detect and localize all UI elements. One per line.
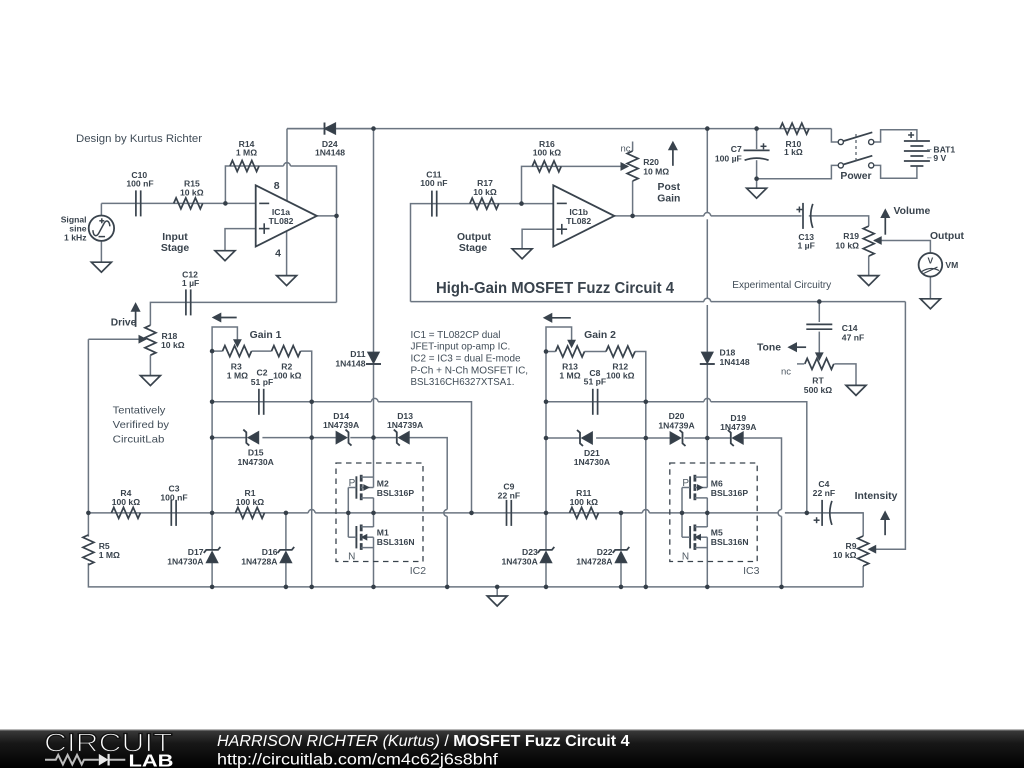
wire column x645 to bottom [645, 402, 647, 587]
svg-text:1N4728A: 1N4728A [576, 556, 612, 566]
svg-text:1N4730A: 1N4730A [574, 457, 610, 467]
junction at 546,351.5 [544, 349, 549, 354]
wire IC1b noninv ground [522, 229, 553, 249]
junction at 645.8,438 [644, 436, 649, 441]
junction at 348.3,512.9 [346, 511, 351, 516]
ground C7 [747, 188, 767, 198]
svg-text:1N4148: 1N4148 [315, 147, 345, 157]
wire IC2 source to bottom [373, 547, 375, 587]
capacitor C12 [185, 289, 187, 315]
wire D13 to corner down [409, 438, 447, 510]
wire R5 bottom to rail corner [88, 563, 863, 587]
wire row C past x781 [785, 512, 863, 514]
wire left column to R5 [87, 339, 89, 536]
junction at 682,512.9 [680, 511, 685, 516]
logo resistor-diode glyph [45, 755, 125, 765]
svg-text:100 kΩ: 100 kΩ [112, 497, 141, 507]
svg-text:BSL316N: BSL316N [377, 537, 415, 547]
resistor R14 [230, 161, 259, 172]
potentiometer R3 [223, 346, 252, 357]
zener D22 [615, 552, 626, 563]
svg-text:TL082: TL082 [269, 216, 294, 226]
voltage source V1 signal [89, 216, 114, 241]
wire gain1 resistor row [212, 350, 222, 352]
wire power rail corner to switch [831, 129, 838, 142]
wire IC3 source to bottom [706, 547, 708, 587]
svg-text:P: P [349, 478, 356, 489]
wire column x311 zener to bottom [311, 402, 313, 587]
junction at 373.5,128.6 [371, 126, 376, 131]
wire zener row 1 [212, 437, 246, 439]
svg-text:1N4728A: 1N4728A [241, 556, 277, 566]
wire row C mid segment [315, 512, 642, 514]
svg-text:BSL316P: BSL316P [377, 488, 415, 498]
wire source top lead [100, 203, 102, 215]
svg-text:100 kΩ: 100 kΩ [606, 370, 635, 380]
wire C4 to R9 [830, 513, 864, 536]
wire B2 to drop corner [711, 402, 807, 513]
IC2 dashed box [336, 463, 423, 562]
ground RT [846, 385, 866, 395]
wire zener row 2 [546, 437, 580, 439]
svg-text:BSL316CH6327XTSA1.: BSL316CH6327XTSA1. [411, 377, 515, 388]
zener D23 [540, 552, 551, 563]
wire R20 bottom [632, 181, 634, 216]
zener D19 [733, 432, 744, 444]
svg-text:M1: M1 [377, 528, 389, 538]
wire D16 column [285, 513, 287, 550]
junction at 311.7,586.9 [309, 585, 314, 590]
wire hop row C over x311 [308, 510, 315, 513]
junction at 336.5,215.9 [334, 214, 339, 219]
resistor R12 [606, 346, 635, 357]
svg-text:P: P [682, 478, 689, 489]
wire IC1b output row [614, 215, 704, 217]
voltmeter VM [919, 253, 943, 277]
wire hop R14 over pin8 [284, 163, 291, 166]
capacitor C2 [258, 389, 260, 415]
diode D18 [702, 352, 713, 363]
junction at 621,512.9 [619, 511, 624, 516]
wire D23 to bottom rail [545, 563, 547, 587]
svg-text:IC2 = IC3 = dual E-mode: IC2 = IC3 = dual E-mode [411, 354, 521, 365]
svg-text:100 nF: 100 nF [126, 179, 153, 189]
svg-text:10 kΩ: 10 kΩ [161, 340, 185, 350]
svg-text:9 V: 9 V [933, 153, 946, 163]
svg-text:Tentatively: Tentatively [113, 406, 167, 417]
svg-text:10 kΩ: 10 kΩ [180, 188, 204, 198]
ground R18 [140, 376, 160, 386]
svg-text:1N4739A: 1N4739A [387, 420, 423, 430]
wire R18 bottom lead [149, 355, 151, 375]
wire hop B2 over D18 column [704, 398, 711, 401]
resistor R1 [236, 507, 265, 518]
junction at 621,586.9 [619, 585, 624, 590]
wire long row right [711, 301, 906, 303]
svg-text:TL082: TL082 [566, 216, 591, 226]
wire R19 bottom lead [868, 256, 870, 276]
svg-text:Gain: Gain [657, 193, 680, 204]
junction at 225.4,203.4 [223, 201, 228, 206]
wire R18 wiper row [88, 338, 139, 340]
capacitor C7 polarized [744, 149, 770, 151]
wire gain1 lower row B1 [212, 401, 371, 403]
wire switch to battery top [874, 130, 917, 142]
junction at 756.6,178.7 [754, 176, 759, 181]
svg-text:1 kΩ: 1 kΩ [784, 147, 803, 157]
arrow Tone [797, 346, 807, 348]
svg-text:Output: Output [457, 232, 492, 243]
resistor R4 [111, 507, 140, 518]
wire R12 to corner down [635, 352, 646, 402]
wire IC1a pin4 to ground [286, 231, 288, 276]
wire IC2 gate column [347, 488, 349, 538]
op-amp IC1b [553, 185, 614, 246]
svg-text:M5: M5 [711, 528, 723, 538]
wire output row to C13 [711, 215, 802, 217]
wire long row y302 [411, 301, 704, 303]
svg-text:1 MΩ: 1 MΩ [236, 147, 257, 157]
svg-text:1N4739A: 1N4739A [323, 420, 359, 430]
junction at 632.6,215.9 [630, 214, 635, 219]
wire hop output over D18 column [704, 213, 711, 216]
svg-text:51 pF: 51 pF [251, 377, 273, 387]
junction at 212.1,351.1 [210, 349, 215, 354]
zener D21 [582, 432, 593, 444]
wire IC1a pin8 to rail [286, 129, 288, 201]
wire IC2 drain column [373, 438, 375, 478]
wire C13 to R19 [809, 216, 869, 226]
svg-text:V: V [928, 256, 934, 266]
junction at 285.9,512.9 [284, 511, 289, 516]
battery BAT1 [904, 140, 930, 142]
zener D16 [280, 552, 291, 563]
wire gain2 resistor row [546, 351, 556, 353]
ground IC1a noninv [215, 251, 235, 261]
junction at 707.3,586.9 [705, 585, 710, 590]
resistor R17 [470, 198, 499, 209]
svg-text:1 MΩ: 1 MΩ [99, 550, 120, 560]
wire output down to C12 row [336, 216, 338, 303]
wire IC3 drain column [706, 438, 708, 477]
svg-text:10 kΩ: 10 kΩ [833, 550, 857, 560]
potentiometer RT [805, 358, 834, 369]
mosfet M1 [355, 526, 357, 548]
arrow Gain 2 [552, 317, 571, 319]
resistor R10 [780, 123, 809, 134]
svg-text:10 MΩ: 10 MΩ [643, 167, 669, 177]
wire gain1 pot loop [212, 327, 237, 351]
junction at 521.5,203.6 [519, 201, 524, 206]
resistor R16 [532, 161, 561, 172]
svg-text:1 µF: 1 µF [182, 278, 199, 288]
wire C7 bottom lead [756, 160, 758, 188]
wire R19 wiper to VM [874, 241, 930, 254]
arrow Drive [135, 311, 137, 327]
zener D13 [399, 432, 410, 444]
wire D18 column bottom [706, 365, 708, 438]
wire source bottom lead [100, 241, 102, 262]
wire switch bottom to C7 [757, 165, 839, 178]
wire IC1a noninv to ground [225, 229, 256, 251]
ground pin4 [277, 276, 297, 286]
capacitor C14 [806, 323, 832, 325]
wire row C right segment [649, 512, 778, 514]
wire R2 to corner down [301, 351, 312, 402]
zener D17 [206, 552, 217, 563]
svg-text:IC1 = TL082CP dual: IC1 = TL082CP dual [411, 330, 501, 341]
arrow Gain 1 [221, 317, 237, 319]
zener D14 [336, 432, 347, 444]
capacitor C11 [431, 191, 433, 217]
wire D19 column to bottom rail [781, 516, 783, 587]
wire D13 column to bottom rail [446, 516, 448, 587]
wire gain2 lower row B2 [546, 401, 704, 403]
capacitor C13 polarized [802, 203, 804, 229]
svg-text:Gain 1: Gain 1 [250, 330, 282, 341]
junction at 546,512.9 [544, 511, 549, 516]
svg-text:Experimental Circuitry: Experimental Circuitry [732, 280, 832, 291]
junction at 707.3,438 [705, 436, 710, 441]
wire R14 row to output corner [290, 166, 336, 216]
svg-text:1N4148: 1N4148 [720, 357, 750, 367]
capacitor C8 [592, 389, 594, 415]
svg-text:1N4148: 1N4148 [335, 358, 365, 368]
wire hop D19 column over row C [778, 510, 781, 517]
svg-text:Post: Post [658, 182, 681, 193]
wire D19 to corner down [744, 438, 782, 510]
svg-text:51 pF: 51 pF [584, 377, 606, 387]
svg-text:Tone: Tone [757, 343, 781, 354]
potentiometer R18 [145, 325, 156, 355]
wire ground stub bottom rail [496, 587, 498, 596]
wire R16 row [522, 166, 622, 203]
svg-text:JFET-input op-amp IC.: JFET-input op-amp IC. [411, 342, 511, 353]
svg-text:10 kΩ: 10 kΩ [473, 187, 497, 197]
ground R19 [859, 276, 879, 286]
wire D11 column top [373, 129, 375, 353]
capacitor C4 polarized [821, 500, 823, 526]
wire IC3 gate column [681, 488, 683, 538]
svg-text:nc: nc [781, 366, 791, 377]
svg-text:D11: D11 [350, 349, 366, 359]
junction at 88.4,512.9 [86, 511, 91, 516]
wire IC1b input row [411, 204, 554, 302]
arrow Post Gain [672, 150, 674, 166]
svg-text:VM: VM [945, 260, 958, 270]
svg-text:Power: Power [840, 171, 871, 182]
junction at 781.5,586.9 [779, 585, 784, 590]
svg-text:Drive: Drive [111, 318, 137, 329]
zener D20 [670, 432, 681, 444]
svg-text:CircuitLab: CircuitLab [113, 434, 165, 445]
wire column x212 [211, 351, 213, 550]
junction at 212.1,401.8 [210, 400, 215, 405]
junction at 645.8,586.9 [644, 585, 649, 590]
wire B1 to drop corner [378, 402, 471, 513]
svg-text:N: N [682, 552, 689, 563]
junction at 212.1,586.9 [210, 585, 215, 590]
potentiometer R13 [556, 346, 585, 357]
mosfet M5 [689, 526, 691, 548]
svg-text:4: 4 [275, 247, 281, 259]
wire C12 row [150, 302, 336, 325]
wire long row corner down to R9 wiper [875, 302, 906, 550]
op-amp IC1a [256, 185, 317, 246]
wire row C left segment [88, 512, 308, 514]
svg-text:Volume: Volume [894, 206, 931, 217]
wire RT nc stub [797, 363, 804, 365]
svg-text:100 kΩ: 100 kΩ [236, 497, 265, 507]
svg-text:IC3: IC3 [743, 565, 760, 577]
svg-text:High-Gain MOSFET Fuzz Circuit: High-Gain MOSFET Fuzz Circuit 4 [436, 280, 674, 297]
wire hop row C over x645 [642, 510, 649, 513]
footer bar [0, 730, 1024, 768]
svg-text:47 nF: 47 nF [842, 332, 864, 342]
arrow Intensity [884, 520, 886, 536]
svg-text:22 nF: 22 nF [498, 491, 520, 501]
junction at 285.9,586.9 [284, 585, 289, 590]
svg-text:1N4730A: 1N4730A [167, 556, 203, 566]
arrow Volume [884, 218, 886, 235]
wire D17 to bottom rail [211, 563, 213, 587]
wire gain2 pot loop [546, 327, 572, 352]
resistor R5 [83, 535, 94, 565]
svg-text:1 MΩ: 1 MΩ [227, 370, 248, 380]
svg-text:nc: nc [620, 144, 630, 155]
svg-text:Verifired by: Verifired by [113, 420, 170, 431]
wire battery bottom to switch [874, 165, 917, 178]
svg-text:1N4730A: 1N4730A [238, 457, 274, 467]
svg-text:Intensity: Intensity [855, 491, 898, 502]
svg-text:8: 8 [274, 180, 280, 192]
svg-text:100 kΩ: 100 kΩ [570, 497, 599, 507]
mosfet M6 [689, 476, 691, 498]
diode D11 [368, 352, 379, 363]
svg-text:Output: Output [930, 231, 965, 242]
wire C14 column [818, 302, 820, 322]
wire +9V rail [287, 128, 831, 130]
wire hop D13 column over row C [444, 510, 447, 517]
wire C14 to RT wiper [818, 332, 820, 353]
ground bottom rail [487, 596, 507, 606]
wire hop B1 over D11 column [371, 398, 378, 401]
svg-text:500 kΩ: 500 kΩ [804, 385, 833, 395]
svg-text:Design by Kurtus Richter: Design by Kurtus Richter [76, 133, 202, 145]
svg-text:100 nF: 100 nF [160, 493, 187, 503]
junction at 707.3,512.9 [705, 511, 710, 516]
IC3 dashed box [670, 463, 757, 562]
svg-text:1 kHz: 1 kHz [64, 233, 86, 243]
svg-text:1N4739A: 1N4739A [658, 421, 694, 431]
junction at 311.7,401.8 [309, 400, 314, 405]
wire C7 top lead [756, 129, 758, 150]
ground IC1b noninv [512, 249, 532, 259]
svg-text:LAB: LAB [129, 750, 174, 768]
svg-text:100 kΩ: 100 kΩ [533, 148, 562, 158]
junction at 546,438 [544, 436, 549, 441]
capacitor C9 [506, 500, 508, 526]
svg-text:BSL316P: BSL316P [711, 488, 749, 498]
svg-text:Gain 2: Gain 2 [584, 330, 616, 341]
svg-text:100 µF: 100 µF [715, 154, 742, 164]
junction at 373.5,512.9 [371, 511, 376, 516]
junction at 756.6,128.6 [754, 126, 759, 131]
svg-text:N: N [348, 552, 355, 563]
junction at 546,586.9 [544, 585, 549, 590]
junction at 546,401.8 [544, 400, 549, 405]
svg-text:100 nF: 100 nF [420, 178, 447, 188]
svg-text:10 kΩ: 10 kΩ [835, 240, 859, 250]
svg-text:100 kΩ: 100 kΩ [273, 370, 302, 380]
resistor R15 [174, 198, 203, 209]
resistor R2 [272, 346, 301, 357]
svg-text:1 MΩ: 1 MΩ [559, 370, 580, 380]
junction at 707.3,128.6 [705, 126, 710, 131]
diode D24 [325, 123, 336, 134]
wire R14 feedback row [225, 166, 283, 203]
svg-text:Input: Input [162, 232, 188, 243]
svg-text:R20: R20 [643, 157, 659, 167]
wire column x546 [545, 352, 547, 550]
switch SW1 power [838, 139, 843, 144]
resistor R11 [570, 507, 599, 518]
junction at 311.7,437.6 [309, 435, 314, 440]
junction at 471.5,512.9 [469, 511, 474, 516]
junction at 212.1,437.6 [210, 435, 215, 440]
wire D22 column [620, 513, 622, 550]
junction at 497.2,586.9 [495, 585, 500, 590]
ground VM [920, 299, 940, 309]
junction at 373.5,437.6 [371, 435, 376, 440]
capacitor C10 [135, 190, 137, 216]
wire R20 nc stub [632, 142, 634, 152]
svg-text:IC2: IC2 [410, 565, 427, 577]
wire IC1a output [317, 215, 337, 217]
svg-text:1 µF: 1 µF [798, 241, 815, 251]
junction at 819.3,301.6 [817, 299, 822, 304]
svg-text:Stage: Stage [459, 243, 488, 254]
wire IC1a input row [101, 202, 255, 204]
svg-text:http://circuitlab.com/cm4c62j6: http://circuitlab.com/cm4c62j6s8bhf [217, 752, 498, 768]
wire hop long row over D18 column [704, 298, 711, 301]
zener D15 [248, 432, 259, 444]
svg-text:22 nF: 22 nF [813, 488, 835, 498]
junction at 806.8,512.9 [805, 511, 810, 516]
svg-text:Stage: Stage [161, 243, 190, 254]
potentiometer R9 [858, 536, 869, 566]
wire D24 leads [287, 128, 323, 130]
wire R9 bottom lead [862, 566, 864, 587]
svg-text:P-Ch + N-Ch MOSFET IC,: P-Ch + N-Ch MOSFET IC, [411, 365, 529, 376]
mosfet M2 [355, 476, 357, 498]
wire RT right to ground [834, 364, 856, 386]
capacitor C3 [170, 500, 172, 526]
svg-text:BSL316N: BSL316N [711, 537, 749, 547]
svg-text:1N4739A: 1N4739A [720, 422, 756, 432]
wire D11 column bottom [373, 365, 375, 438]
wire D18 column top [706, 129, 708, 213]
svg-text:D15: D15 [248, 447, 264, 457]
junction at 212.1,512.9 [210, 511, 215, 516]
wire VM to ground [929, 277, 931, 299]
junction at 373.5,586.9 [371, 585, 376, 590]
junction at 645.8,401.8 [644, 400, 649, 405]
junction at 447.2,586.9 [445, 585, 450, 590]
svg-text:HARRISON RICHTER (Kurtus) / MO: HARRISON RICHTER (Kurtus) / MOSFET Fuzz … [217, 733, 630, 750]
ground below source [91, 262, 111, 272]
potentiometer R20 [627, 151, 638, 181]
